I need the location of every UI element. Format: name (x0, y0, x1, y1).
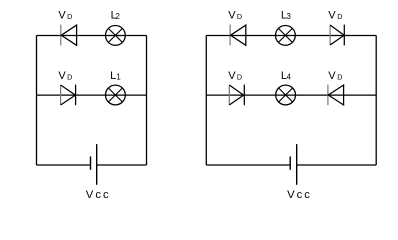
battery Vcc (left circuit) (91, 144, 97, 185)
label VD (left circuit, middle branch) (58, 70, 72, 82)
svg-text:V: V (328, 10, 336, 22)
label VD (right circuit, top branch left) (228, 10, 242, 22)
wire: left circuit bottom left segment (37, 164, 91, 166)
svg-text:L: L (110, 70, 116, 82)
label L1 (110, 70, 121, 82)
diode VD (right circuit, middle branch right, pointing left) (328, 85, 344, 106)
label VD (right circuit, top branch right) (328, 10, 342, 22)
svg-text:D: D (67, 72, 72, 81)
diode VD (right circuit, top branch right, pointing right) (330, 25, 344, 46)
wire: right circuit top branch (206, 35, 376, 37)
svg-text:V: V (328, 70, 336, 82)
wire: right circuit right vertical (375, 36, 377, 166)
label L2 (111, 10, 120, 22)
label L3 (281, 10, 291, 22)
svg-text:V: V (58, 10, 66, 22)
svg-text:V: V (228, 70, 236, 82)
lamp L4 (276, 85, 296, 105)
wire: left circuit bottom right segment (97, 164, 147, 166)
lamp L2 (106, 26, 126, 46)
wire: right circuit left vertical (205, 36, 207, 166)
svg-text:1: 1 (116, 73, 120, 82)
svg-text:Vcc: Vcc (287, 189, 312, 201)
wire: left circuit left vertical (36, 36, 38, 166)
wire: left circuit top branch (37, 35, 147, 37)
diode VD (right circuit, top branch left, pointing left) (230, 25, 246, 46)
lamp L1 (106, 85, 126, 105)
label VD (right circuit, middle branch left) (228, 70, 242, 82)
label VD (left circuit, top branch) (58, 10, 72, 22)
wire: left circuit middle branch (37, 94, 147, 96)
wire: right circuit bottom left segment (206, 164, 290, 166)
diode VD (left circuit, top branch, pointing left) (61, 25, 77, 46)
svg-text:D: D (337, 12, 342, 21)
label L4 (281, 70, 292, 82)
diode VD (right circuit, middle branch left, pointing right) (229, 85, 244, 106)
svg-text:D: D (237, 72, 242, 81)
svg-text:2: 2 (116, 12, 120, 21)
svg-text:V: V (228, 10, 236, 22)
svg-text:V: V (58, 70, 66, 82)
svg-text:D: D (67, 12, 72, 21)
wire: right circuit bottom right segment (297, 164, 377, 166)
svg-text:Vcc: Vcc (86, 189, 111, 201)
svg-text:D: D (237, 12, 242, 21)
diode VD (left circuit, middle branch, pointing right) (61, 85, 76, 106)
wire: right circuit middle branch (206, 94, 376, 96)
label VD (right circuit, middle branch right) (328, 70, 342, 82)
lamp L3 (276, 26, 296, 46)
svg-text:3: 3 (287, 12, 291, 21)
wire: left circuit right vertical (146, 36, 148, 166)
battery Vcc (right circuit) (290, 144, 297, 185)
svg-text:D: D (337, 72, 342, 81)
svg-text:4: 4 (287, 73, 292, 82)
